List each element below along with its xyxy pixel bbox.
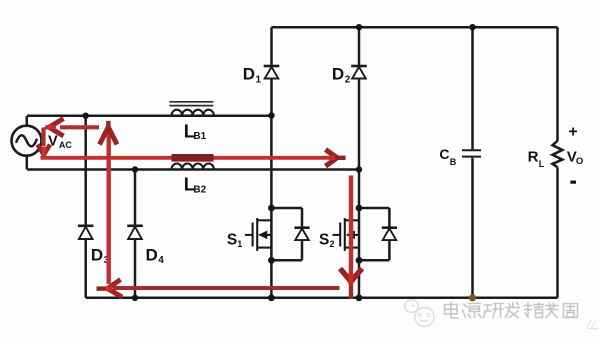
- label D1: [243, 65, 262, 86]
- label D3: [91, 245, 110, 266]
- svg-text:AC: AC: [59, 140, 72, 150]
- inductor LB2 core lines (dark overlap with red path): [172, 154, 214, 162]
- node junction AC line / D3 tap: [83, 113, 89, 119]
- node junction top rail / D2: [356, 24, 362, 30]
- wire red current path: source down arrow: [38, 128, 51, 160]
- node junction S2 drain / body diode: [356, 205, 363, 212]
- transistor S1 body arrow: [258, 231, 267, 240]
- svg-text:C: C: [439, 146, 449, 162]
- svg-text:B2: B2: [193, 184, 206, 195]
- inductor LB2: [172, 163, 214, 169]
- node junction S1 source / body diode: [268, 257, 275, 264]
- svg-text:D: D: [146, 245, 158, 264]
- svg-text:R: R: [528, 149, 539, 166]
- node junction S2 / bottom rail: [356, 294, 363, 301]
- svg-text:S: S: [319, 231, 329, 248]
- wire bottom rail: [86, 297, 558, 300]
- label S1: [227, 231, 242, 248]
- label L_B1: [184, 121, 207, 143]
- label R_L: [528, 149, 545, 169]
- diode D3 branch wires: [84, 116, 87, 298]
- wire red bottom path with left arrow: [97, 280, 340, 298]
- node junction S2 source / body diode: [356, 257, 363, 264]
- svg-text:D: D: [91, 245, 103, 264]
- label D2: [332, 65, 351, 86]
- label L_B2: [184, 173, 207, 195]
- svg-text:L: L: [539, 159, 545, 169]
- capacitor CB plates: [462, 150, 481, 156]
- wire AC top rail: [27, 114, 272, 117]
- AC source V_AC: [12, 126, 42, 156]
- svg-text:D: D: [332, 65, 344, 84]
- wire AC source stubs: [26, 116, 29, 170]
- svg-text:D: D: [243, 65, 255, 84]
- svg-text:S: S: [227, 231, 237, 248]
- label C_B: [439, 146, 456, 167]
- svg-text:B1: B1: [193, 131, 206, 142]
- diode D4 branch wires: [134, 170, 137, 298]
- label S2: [319, 231, 335, 248]
- watermark text: [445, 302, 578, 318]
- wire right edge lower: [556, 167, 559, 298]
- capacitor CB branch wires: [471, 27, 474, 298]
- watermark logo: [405, 300, 434, 327]
- svg-text:4: 4: [158, 255, 164, 266]
- svg-text:1: 1: [237, 239, 242, 249]
- node junction S1 drain / body diode: [268, 205, 275, 212]
- diode D1: [264, 66, 280, 79]
- wire red main rail with right arrow: [41, 150, 346, 167]
- diode S2 body diode: [359, 208, 397, 260]
- node CB bottom (brown dot): [469, 294, 476, 301]
- diode D1 branch wires: [270, 27, 273, 115]
- label V_AC: [48, 134, 72, 150]
- wire top rail: [272, 26, 558, 29]
- wire red up path at D3/D4 with arrow: [100, 121, 118, 284]
- transistor S2 (MOSFET): [333, 218, 360, 251]
- svg-text:+: +: [568, 123, 577, 140]
- node junction LB2 / D2 / S2: [356, 166, 362, 172]
- wire red down path at S2 with arrow: [340, 176, 362, 300]
- diode D4: [127, 226, 143, 239]
- label minus: [570, 181, 576, 184]
- transistor S1 (MOSFET): [245, 218, 272, 251]
- node junction AC neutral / D4 tap: [132, 166, 138, 172]
- watermark corner mark: [587, 320, 598, 329]
- label V_O: [567, 149, 583, 168]
- inductor LB1: [169, 102, 214, 116]
- resistor RL zigzag: [553, 141, 563, 167]
- svg-text:O: O: [576, 156, 583, 167]
- transistor S2 body arrow: [346, 231, 355, 240]
- node junction D4 / bottom rail: [132, 295, 138, 301]
- node junction top rail / CB: [469, 24, 475, 30]
- wire red top-left path with left arrow: [46, 119, 100, 137]
- wire S1 branch: [270, 116, 273, 298]
- wire AC bottom rail: [27, 168, 359, 171]
- diode S1 body diode: [271, 208, 309, 260]
- diode D2 branch wires: [358, 27, 361, 169]
- svg-text:2: 2: [330, 239, 335, 249]
- wire S2 branch: [358, 170, 361, 298]
- wire right edge upper: [556, 27, 559, 141]
- diode D3: [78, 226, 94, 239]
- node junction LB1 / D1 / S1: [268, 112, 274, 118]
- node junction S1 / bottom rail: [268, 294, 275, 301]
- svg-text:B: B: [450, 157, 457, 167]
- diode D2: [351, 66, 367, 79]
- svg-text:2: 2: [345, 74, 351, 85]
- label D4: [146, 245, 165, 266]
- svg-text:1: 1: [256, 74, 262, 85]
